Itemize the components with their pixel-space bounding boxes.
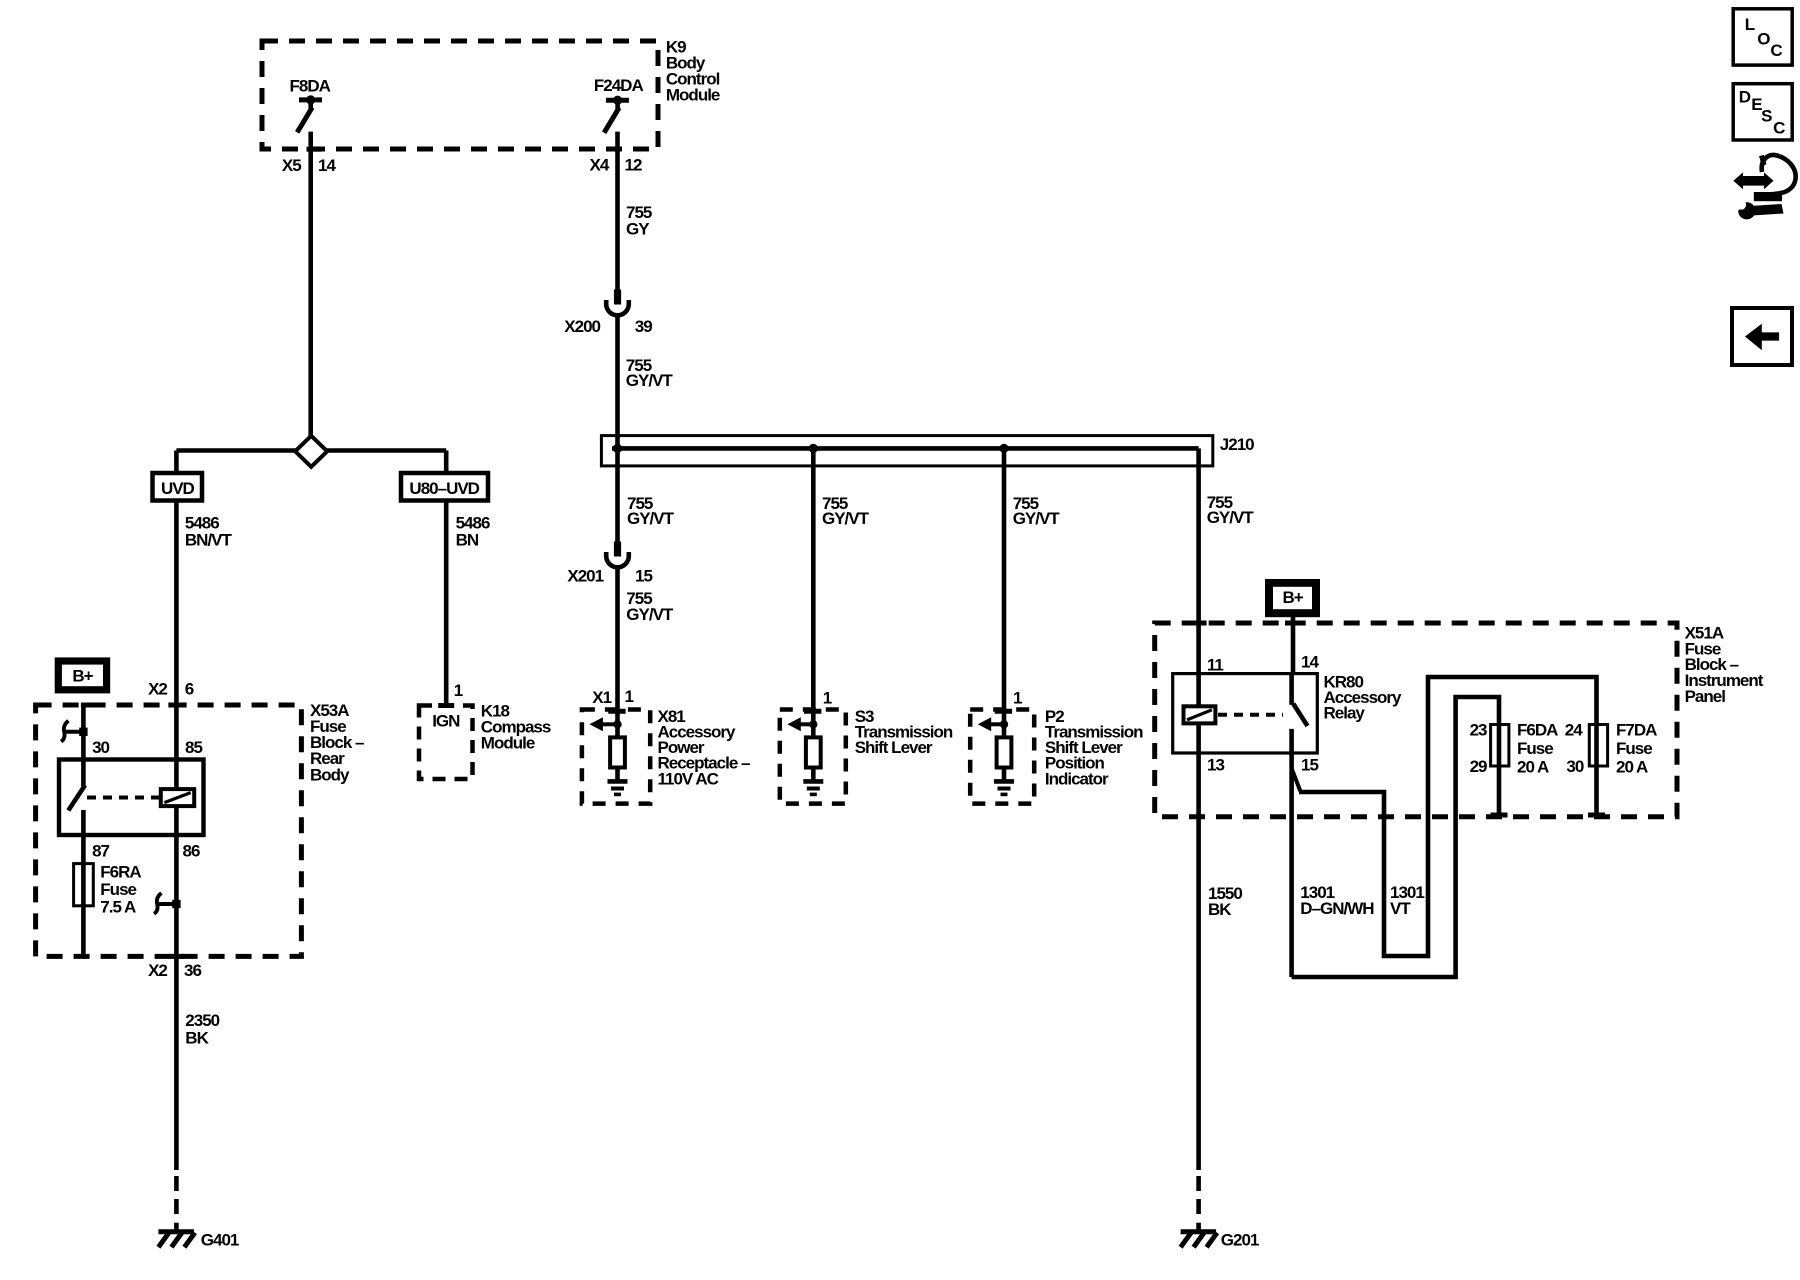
svg-text:X2: X2 (148, 961, 167, 980)
svg-text:1: 1 (823, 688, 832, 707)
svg-text:F6DA: F6DA (1517, 720, 1558, 739)
svg-text:Fuse: Fuse (100, 880, 136, 899)
svg-text:GY/VT: GY/VT (822, 509, 870, 528)
svg-text:X2: X2 (148, 680, 167, 699)
svg-text:L: L (1745, 15, 1755, 34)
svg-text:X4: X4 (590, 155, 610, 174)
svg-text:UVD: UVD (161, 479, 195, 498)
svg-text:GY/VT: GY/VT (626, 371, 674, 390)
svg-text:11: 11 (1207, 655, 1224, 674)
svg-text:13: 13 (1207, 755, 1224, 774)
svg-text:12: 12 (625, 155, 642, 174)
svg-text:15: 15 (1301, 755, 1318, 774)
svg-text:20 A: 20 A (1517, 758, 1549, 777)
svg-text:39: 39 (635, 317, 652, 336)
svg-text:29: 29 (1470, 757, 1487, 776)
svg-text:BK: BK (1208, 900, 1232, 919)
svg-text:Body: Body (310, 765, 350, 784)
svg-text:GY/VT: GY/VT (626, 605, 674, 624)
svg-text:85: 85 (185, 738, 202, 757)
svg-text:36: 36 (184, 961, 201, 980)
svg-text:G201: G201 (1221, 1230, 1259, 1249)
svg-text:24: 24 (1565, 720, 1583, 739)
svg-text:X200: X200 (564, 317, 600, 336)
svg-text:23: 23 (1470, 720, 1487, 739)
svg-text:1: 1 (1013, 688, 1022, 707)
svg-text:X201: X201 (567, 567, 603, 586)
svg-text:VT: VT (1390, 899, 1411, 918)
svg-text:6: 6 (185, 680, 194, 699)
svg-text:30: 30 (92, 738, 109, 757)
svg-text:J210: J210 (1220, 435, 1254, 454)
svg-text:B+: B+ (72, 667, 93, 686)
svg-text:X5: X5 (282, 156, 301, 175)
svg-text:14: 14 (318, 156, 336, 175)
svg-text:7.5 A: 7.5 A (100, 897, 136, 916)
svg-text:GY/VT: GY/VT (627, 509, 675, 528)
svg-text:Relay: Relay (1324, 704, 1366, 723)
svg-text:Indicator: Indicator (1045, 769, 1109, 788)
svg-text:Panel: Panel (1685, 687, 1726, 706)
svg-text:GY: GY (626, 220, 650, 239)
svg-text:Shift Lever: Shift Lever (855, 738, 933, 757)
svg-text:1: 1 (454, 681, 463, 700)
svg-text:S: S (1761, 106, 1772, 125)
svg-text:U80–UVD: U80–UVD (409, 479, 479, 498)
svg-text:F6RA: F6RA (100, 862, 141, 881)
svg-text:B+: B+ (1282, 588, 1303, 607)
svg-text:BN: BN (456, 531, 479, 550)
svg-text:20 A: 20 A (1616, 758, 1648, 777)
svg-text:C: C (1773, 118, 1785, 137)
svg-text:BK: BK (185, 1028, 209, 1047)
svg-text:110V AC: 110V AC (658, 769, 719, 788)
svg-text:X1: X1 (592, 688, 611, 707)
svg-text:Fuse: Fuse (1616, 739, 1652, 758)
svg-text:O: O (1757, 29, 1770, 48)
svg-text:F8DA: F8DA (290, 76, 331, 95)
svg-text:GY/VT: GY/VT (1013, 509, 1061, 528)
svg-text:Module: Module (481, 733, 535, 752)
svg-text:C: C (1770, 41, 1782, 60)
svg-text:IGN: IGN (432, 711, 460, 730)
svg-text:GY/VT: GY/VT (1207, 508, 1255, 527)
svg-text:1: 1 (625, 687, 634, 706)
svg-text:87: 87 (92, 842, 109, 861)
svg-text:Module: Module (666, 86, 720, 105)
svg-text:D–GN/WH: D–GN/WH (1300, 899, 1374, 918)
svg-text:D: D (1739, 87, 1751, 106)
svg-text:2350: 2350 (185, 1011, 219, 1030)
svg-text:G401: G401 (201, 1230, 239, 1249)
svg-text:30: 30 (1566, 757, 1583, 776)
svg-text:BN/VT: BN/VT (185, 531, 233, 550)
svg-text:15: 15 (635, 567, 652, 586)
svg-text:F7DA: F7DA (1616, 720, 1657, 739)
svg-text:Fuse: Fuse (1517, 739, 1553, 758)
svg-text:86: 86 (183, 842, 200, 861)
svg-text:14: 14 (1301, 652, 1319, 671)
svg-text:F24DA: F24DA (594, 76, 644, 95)
